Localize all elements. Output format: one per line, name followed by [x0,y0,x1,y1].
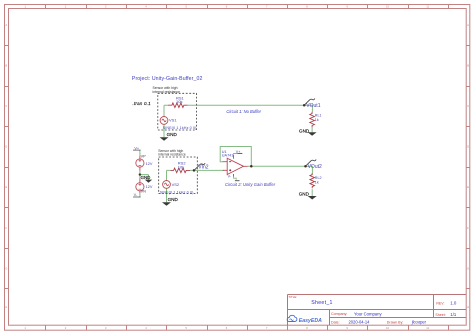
EasyEDA logo [287,315,322,324]
svg-text:VS2: VS2 [172,182,180,187]
pin V+ net flag [234,150,243,155]
svg-text:GND: GND [299,192,310,197]
ground GND (VS2) [162,197,178,206]
svg-text:Sheet:: Sheet: [435,313,445,317]
svg-text:REV:: REV: [436,302,444,306]
svg-text:10: 10 [386,5,390,9]
wire RS1 to VOut1 [188,105,313,112]
resistor RS2 [171,168,191,173]
feedback wire [220,147,251,167]
svg-text:11: 11 [426,5,429,9]
svg-text:2020-04-14: 2020-04-14 [349,320,371,325]
voltage source VN [136,178,144,193]
svg-text:VS1: VS1 [169,118,177,123]
wire VS2 to ground [166,188,168,202]
svg-text:jlcooper: jlcooper [411,320,427,325]
svg-text:C: C [467,104,469,108]
svg-text:Your Company: Your Company [354,311,382,316]
svg-text:SINE(0 1 1kHz 0 0): SINE(0 1 1kHz 0 0) [160,191,194,195]
svg-text:V+: V+ [236,150,241,154]
net flag VIn2 [194,163,209,171]
resistor RL2 [310,173,315,188]
svg-text:Sheet_1: Sheet_1 [311,300,332,306]
svg-text:internal resistance: internal resistance [158,153,186,157]
svg-text:C: C [5,104,7,108]
wire VS1 to RS1 [164,105,168,116]
junction VIn2 [193,169,196,172]
wire RL1 to ground [311,127,313,132]
svg-text:12V: 12V [146,162,153,166]
sensor box 1 (dashed) [158,93,197,130]
wire RS2 to op-amp [190,169,224,171]
svg-text:G: G [467,266,469,270]
svg-text:GND: GND [168,197,179,202]
junction VOut1 [303,104,306,107]
net flag V+ (supply top) [133,146,141,150]
svg-text:11: 11 [426,326,429,330]
svg-text:F: F [5,226,7,230]
wire junction to ground [140,171,149,180]
svg-text:12V: 12V [146,185,153,189]
svg-text:B: B [467,64,469,68]
net flag V- (supply bottom) [133,193,141,197]
pin V- net flag [228,174,240,180]
title block [288,295,467,326]
svg-text:Drawn By:: Drawn By: [387,320,404,324]
sensor box 2 (dashed) [159,157,198,194]
svg-text:A: A [5,23,7,27]
svg-text:Project: Unity-Gain-Buffer_02: Project: Unity-Gain-Buffer_02 [132,76,203,82]
svg-text:GND: GND [141,175,151,180]
ground GND (VS1) [160,132,178,141]
voltage source VS2 [163,181,171,189]
title block labels [288,295,445,324]
svg-text:A: A [467,23,469,27]
wire VS1 to ground [163,124,165,137]
svg-text:Circuit 2: Unity Gain Buffer: Circuit 2: Unity Gain Buffer [225,182,276,187]
svg-text:GND: GND [167,132,178,137]
ground GND (supply) [141,175,153,183]
wire VS2 to RS2 [167,170,171,180]
ground GND (RL1) [299,129,317,136]
wire RL2 to ground [311,189,313,196]
svg-text:D: D [5,145,7,149]
title block values [311,300,457,325]
svg-text:B: B [5,64,7,68]
sensor box 2 caption [158,149,186,157]
svg-text:Date:: Date: [331,320,340,324]
sensor box 1 caption [153,86,181,94]
svg-text:VP: VP [141,154,147,158]
resistor RL1 [310,112,315,127]
svg-text:D: D [467,145,469,149]
svg-text:RL1: RL1 [315,114,322,118]
svg-text:G: G [5,266,7,270]
svg-text:Company:: Company: [331,312,347,316]
svg-text:VOut1: VOut1 [306,103,320,109]
wire V+ to VP [139,150,141,156]
voltage source VS1 [160,116,168,124]
svg-text:GND: GND [299,129,310,134]
svg-text:F: F [467,226,469,230]
svg-text:VOut2: VOut2 [308,164,322,170]
junction supply mid [139,173,141,175]
svg-text:10: 10 [386,326,390,330]
svg-text:SINE(0 1 1kHz 0 0): SINE(0 1 1kHz 0 0) [163,126,197,130]
junction feedback [250,165,253,168]
svg-text:.tran 0.1: .tran 0.1 [133,101,152,106]
net flag VOut2 [306,159,322,170]
svg-text:10k: 10k [176,99,182,104]
voltage source VP [136,156,144,171]
svg-text:1k: 1k [315,118,319,122]
svg-text:RL2: RL2 [315,176,322,180]
svg-text:H: H [467,305,469,309]
svg-text:E: E [467,185,469,189]
output wire to VOut2 [248,166,313,173]
svg-text:VIn2: VIn2 [198,165,209,171]
net flag VOut1 [304,98,320,109]
op-amp U1 UA741 [223,155,248,177]
ground GND (RL2) [299,192,317,200]
svg-text:V+: V+ [134,146,140,150]
svg-text:E: E [5,185,7,189]
svg-text:TITLE:: TITLE: [288,295,297,299]
svg-text:H: H [5,305,7,309]
svg-text:1k: 1k [315,181,319,185]
svg-text:VN: VN [141,190,147,194]
junction VOut2 [304,165,307,168]
svg-text:EasyEDA: EasyEDA [299,318,322,324]
resistor RS1 [168,103,188,108]
svg-text:1/1: 1/1 [450,312,456,317]
svg-text:1.0: 1.0 [450,301,457,306]
svg-text:UA741: UA741 [222,153,234,157]
svg-text:10k: 10k [178,164,184,169]
svg-text:Circuit 1: No Buffer: Circuit 1: No Buffer [226,109,261,114]
